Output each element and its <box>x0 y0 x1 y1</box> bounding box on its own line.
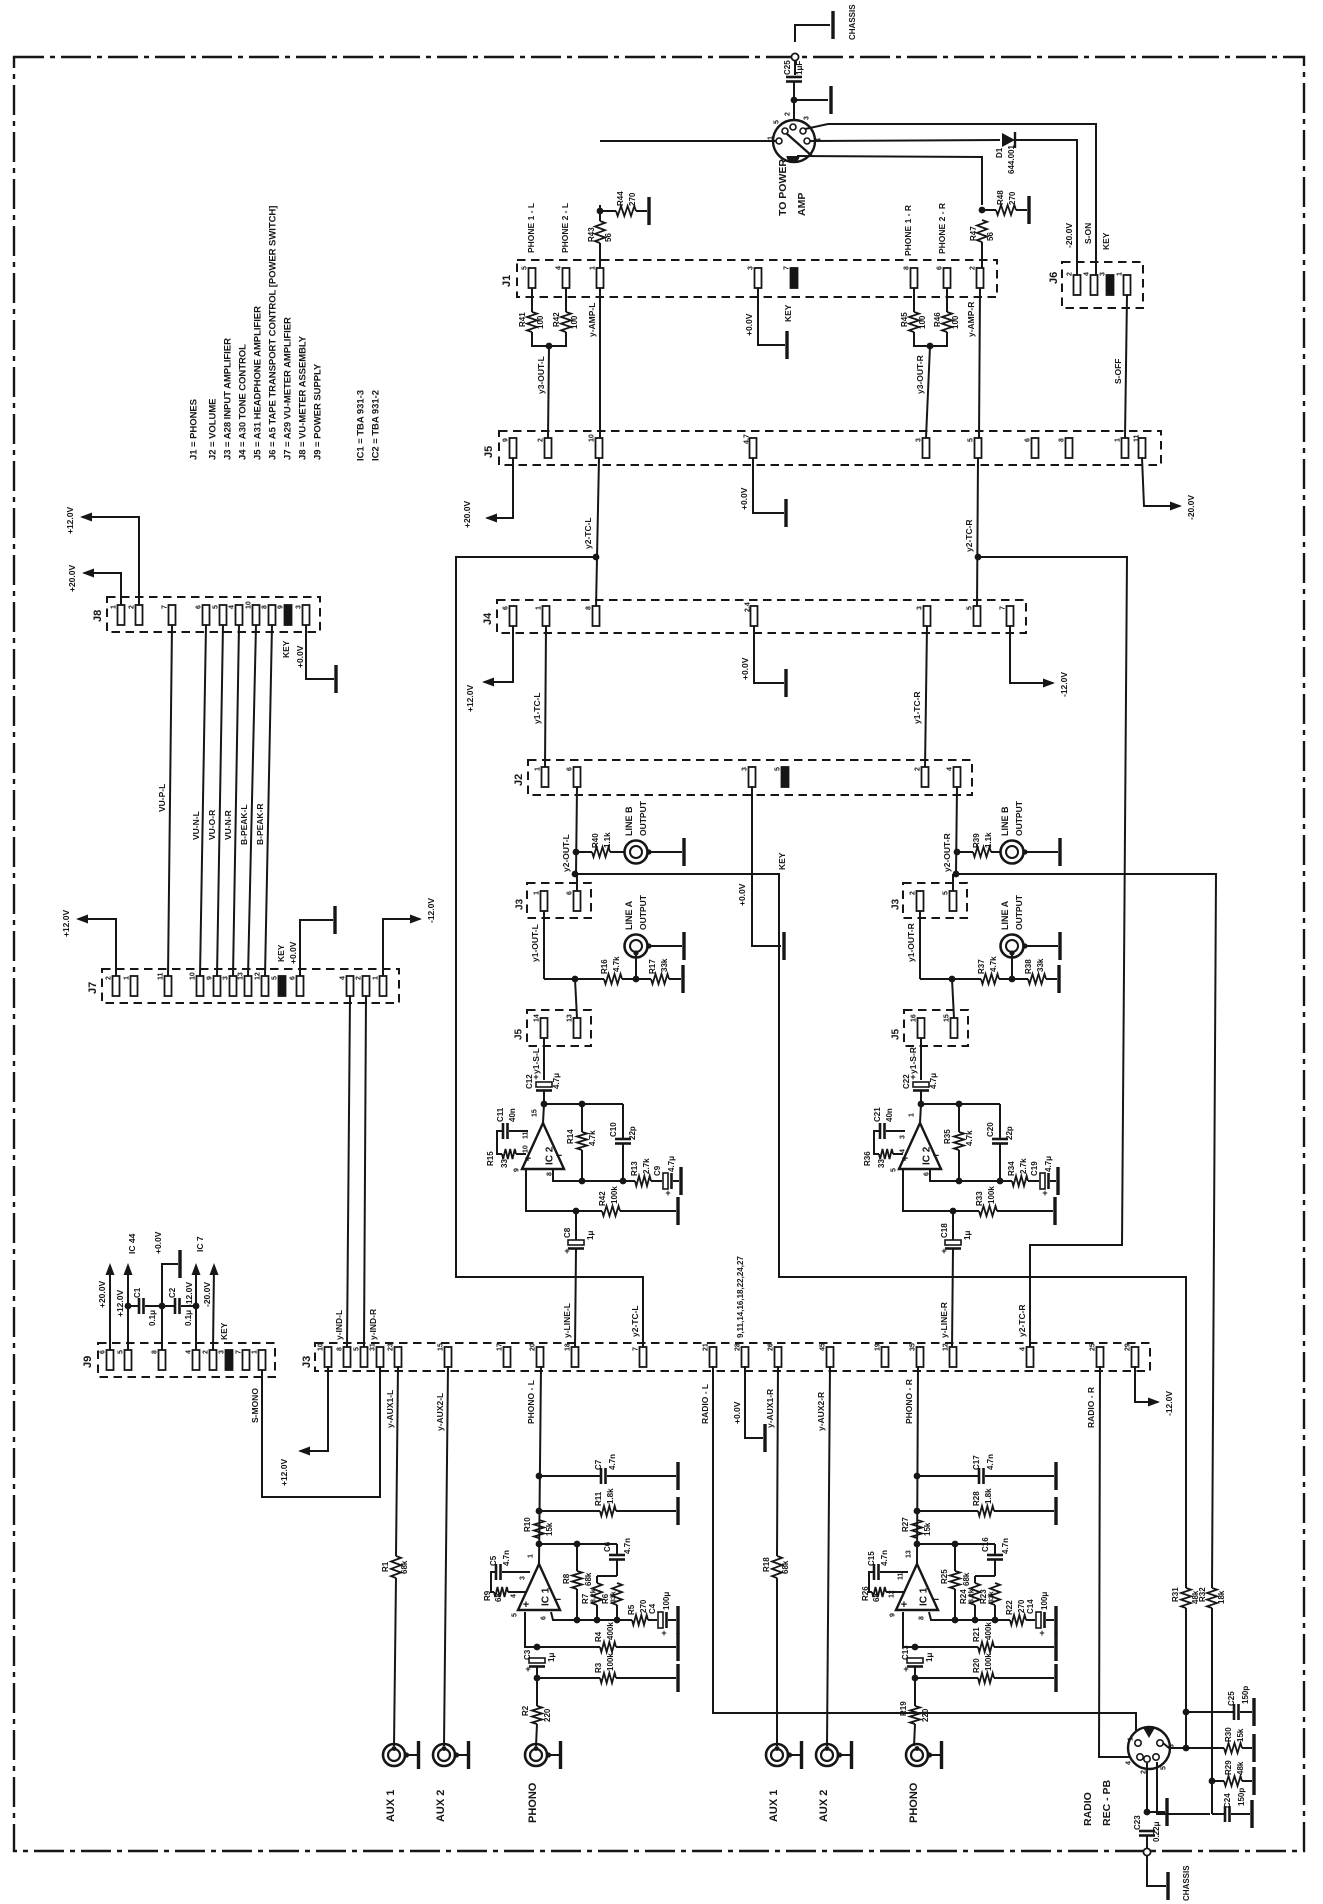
svg-text:21: 21 <box>703 1343 710 1351</box>
wire <box>607 1475 676 1477</box>
wire <box>999 1144 1001 1181</box>
svg-text:KEY: KEY <box>281 640 291 658</box>
ground <box>178 1250 181 1278</box>
svg-text:4: 4 <box>1126 1761 1133 1765</box>
svg-text:J2: J2 <box>513 774 525 786</box>
J4 pin 2,4 <box>751 606 758 626</box>
svg-text:644.001: 644.001 <box>1007 145 1016 174</box>
wire <box>616 1646 676 1648</box>
ground <box>676 1497 679 1525</box>
wire <box>543 1104 544 1123</box>
svg-text:15: 15 <box>532 1109 539 1117</box>
connector J5 (headphone loop R) <box>904 1010 968 1046</box>
svg-text:4.7k: 4.7k <box>989 956 998 972</box>
svg-text:IC2 = TBA 931-2: IC2 = TBA 931-2 <box>370 390 381 461</box>
wire RADIO-R to DIN pin4 <box>1099 1366 1133 1757</box>
svg-text:y1-TC-L: y1-TC-L <box>532 692 542 724</box>
svg-text:R47: R47 <box>969 226 978 241</box>
connector J7 <box>102 969 399 1003</box>
J7 pin 6 <box>297 976 304 996</box>
svg-text:R1: R1 <box>381 1561 390 1572</box>
junction <box>954 849 961 856</box>
svg-text:1: 1 <box>124 976 131 980</box>
wire <box>886 1591 904 1593</box>
J3 pin 21 <box>710 1347 717 1367</box>
wire <box>999 978 1012 980</box>
svg-text:R43: R43 <box>587 227 596 242</box>
wire <box>985 1475 1054 1477</box>
wire <box>794 99 828 101</box>
J5 pin 1 <box>1122 438 1129 458</box>
svg-text:VU-N-L: VU-N-L <box>191 811 201 840</box>
svg-text:C18: C18 <box>940 1223 949 1238</box>
svg-text:y2-TC-L: y2-TC-L <box>583 517 593 549</box>
svg-text:4: 4 <box>340 976 347 980</box>
ground <box>1057 965 1060 993</box>
svg-text:−: − <box>933 1150 939 1162</box>
resistor R2 220 <box>532 1706 542 1724</box>
wire <box>616 1560 618 1576</box>
wire J9 pin8 to ground <box>162 1264 178 1350</box>
chassis ground top <box>831 11 834 39</box>
ground <box>676 1197 679 1225</box>
resistor R9 68 <box>494 1587 508 1597</box>
resistor R42 100 <box>561 312 571 332</box>
wire DIN pin5 to C24 node <box>1157 1762 1210 1814</box>
svg-text:+: + <box>1039 1628 1044 1638</box>
J8 pin 4 <box>236 605 243 625</box>
svg-text:+: + <box>525 1664 530 1674</box>
wire RADIO-L to DIN pin1 <box>713 1366 1136 1742</box>
svg-text:KEY: KEY <box>1101 232 1111 250</box>
wire <box>1231 1813 1250 1815</box>
svg-text:13: 13 <box>906 1550 913 1558</box>
wire <box>565 288 567 312</box>
resistor R26 68 <box>872 1587 886 1597</box>
J9 pin 5 <box>125 1350 132 1370</box>
svg-text:6: 6 <box>290 976 297 980</box>
wire <box>537 1677 600 1679</box>
svg-text:11: 11 <box>158 972 165 980</box>
wire y1-TC-L J4 pin1 to J2 pin1 <box>545 626 546 768</box>
svg-text:4: 4 <box>900 1149 907 1153</box>
wire R45/R46 join <box>914 332 947 346</box>
wire <box>1012 978 1028 980</box>
resistor R25 68k <box>950 1571 960 1589</box>
wire R41/R42 join <box>532 332 566 346</box>
svg-text:C23: C23 <box>1133 1815 1142 1830</box>
svg-text:R41: R41 <box>518 312 527 327</box>
wire J3 pin28 to ground <box>745 1366 763 1438</box>
svg-text:J8 = VU-METER ASSEMBLY: J8 = VU-METER ASSEMBLY <box>297 335 308 460</box>
J8 pin 5 <box>220 605 227 625</box>
svg-text:R42: R42 <box>552 312 561 327</box>
svg-text:+0.0V: +0.0V <box>737 883 747 906</box>
J4 pin 5 <box>974 606 981 626</box>
J5 pin 4,7 <box>750 438 757 458</box>
J8 pin 8 <box>269 605 276 625</box>
ground <box>1054 1633 1057 1661</box>
J3 pin 35 <box>917 1347 924 1367</box>
wire y2-TC-R loop to J3 pin4 <box>978 557 1127 1348</box>
svg-text:+: + <box>903 1664 908 1674</box>
wire <box>145 1305 162 1307</box>
wire y2-OUT-L to R31 <box>575 874 1186 1588</box>
J9 pin 3 <box>226 1350 233 1370</box>
wire <box>1211 1608 1213 1814</box>
wire <box>610 851 624 853</box>
svg-text:C4: C4 <box>648 1603 657 1614</box>
svg-text:3: 3 <box>296 605 303 609</box>
junction <box>573 1208 580 1215</box>
wire J3 pin10 to +12.0V <box>300 1366 328 1451</box>
wire <box>1242 1780 1252 1782</box>
wire <box>575 979 577 1018</box>
svg-text:1: 1 <box>1117 272 1124 276</box>
J6 pin 2 <box>1074 275 1081 295</box>
svg-text:R35: R35 <box>943 1129 952 1144</box>
J3 pin 10 <box>325 1347 332 1367</box>
wire inverting input rail <box>929 1612 1010 1620</box>
svg-text:RADIO: RADIO <box>1082 1792 1094 1826</box>
svg-text:1: 1 <box>1115 438 1122 442</box>
svg-text:270: 270 <box>1017 1599 1026 1613</box>
junction <box>918 1101 925 1108</box>
svg-text:C5: C5 <box>489 1555 498 1566</box>
wire <box>794 61 796 75</box>
svg-text:400k: 400k <box>606 1622 615 1640</box>
resistor R6 33k <box>612 1583 622 1605</box>
svg-text:9: 9 <box>207 976 214 980</box>
wire B-PEAK-R J8 to J7 <box>265 625 272 976</box>
J5 pin 2 <box>545 438 552 458</box>
svg-text:R2: R2 <box>521 1705 530 1716</box>
wire <box>516 1153 526 1155</box>
wire <box>616 1677 676 1679</box>
svg-text:PHONE 1 - R: PHONE 1 - R <box>903 205 913 256</box>
svg-text:R4: R4 <box>594 1631 603 1642</box>
wire <box>954 1589 956 1620</box>
wire <box>920 978 981 980</box>
wire VU-O-R J8 to J7 <box>217 625 223 976</box>
arrow +12.0V <box>80 513 92 522</box>
svg-text:3: 3 <box>748 266 755 270</box>
svg-text:+12.0V: +12.0V <box>279 1458 289 1486</box>
svg-text:1: 1 <box>590 266 597 270</box>
svg-text:4.7k: 4.7k <box>965 1130 974 1146</box>
svg-text:1.8k: 1.8k <box>984 1488 993 1504</box>
wire <box>920 1104 921 1123</box>
resistor R1 68k <box>391 1556 401 1578</box>
wire <box>539 1510 600 1512</box>
connector J5 <box>499 431 1161 465</box>
resistor R31 48k <box>1181 1588 1191 1608</box>
capacitor C20 22p <box>992 1138 1008 1141</box>
svg-text:8: 8 <box>1059 438 1066 442</box>
svg-text:R39: R39 <box>972 833 981 848</box>
wire <box>958 1104 960 1132</box>
svg-text:100k: 100k <box>606 1653 615 1671</box>
wire <box>946 288 948 312</box>
svg-text:1: 1 <box>111 605 118 609</box>
J7 pin 2 <box>113 976 120 996</box>
svg-text:9,11,14,16,18,22,24,27: 9,11,14,16,18,22,24,27 <box>736 1256 745 1338</box>
wire chassis bottom <box>1147 1856 1166 1886</box>
wire non-inverting input <box>525 1612 537 1647</box>
svg-text:R17: R17 <box>648 959 657 974</box>
resistor R24 8.2k <box>970 1583 980 1605</box>
capacitor C10 22p <box>615 1138 631 1141</box>
svg-text:LINE A: LINE A <box>624 900 634 930</box>
ground <box>1252 1767 1255 1795</box>
svg-text:2: 2 <box>129 605 136 609</box>
svg-text:-20.0V: -20.0V <box>1064 223 1074 248</box>
ground <box>647 197 650 225</box>
J2 pin 2 <box>922 767 929 787</box>
resistor R5 270 <box>632 1615 648 1625</box>
svg-text:33k: 33k <box>989 1591 996 1603</box>
ground <box>1165 1798 1168 1826</box>
svg-text:C14: C14 <box>1026 1599 1035 1614</box>
wire D1 to J6 pin2 (-20.0V) <box>1016 140 1077 276</box>
J2 pin 6 <box>574 767 581 787</box>
J5 pin 3 <box>923 438 930 458</box>
svg-text:4,7: 4,7 <box>744 434 751 444</box>
svg-text:C15: C15 <box>867 1551 876 1566</box>
svg-text:R34: R34 <box>1007 1161 1016 1176</box>
wire to PHONO jack <box>536 1724 537 1746</box>
wire <box>509 1130 528 1132</box>
svg-text:8.2k: 8.2k <box>591 1589 598 1603</box>
wire inverting input rail <box>551 1612 632 1620</box>
wire <box>997 1210 1053 1212</box>
J3 pin 18 <box>572 1347 579 1367</box>
svg-text:9: 9 <box>278 605 285 609</box>
svg-text:R11: R11 <box>594 1491 603 1506</box>
wire J5 pin9 to +20.0V <box>487 458 513 518</box>
svg-text:1: 1 <box>373 976 380 980</box>
resistor R46 100 <box>942 312 952 332</box>
svg-text:31: 31 <box>370 1343 377 1351</box>
resistor R17 33k <box>651 974 669 984</box>
svg-text:4.7n: 4.7n <box>623 1538 632 1554</box>
svg-text:−: − <box>933 1594 939 1606</box>
jack AUX 2 right <box>816 1744 838 1766</box>
junction <box>159 1303 166 1310</box>
junction <box>975 554 982 561</box>
svg-text:AUX 2: AUX 2 <box>435 1790 447 1822</box>
wire J5 pin4,7 to ground <box>753 458 784 513</box>
svg-text:68k: 68k <box>584 1572 593 1586</box>
junction <box>594 1617 601 1624</box>
wire y-IND-R J7 pin2 to J3 pin5 <box>364 996 366 1347</box>
junction <box>914 1473 921 1480</box>
wire <box>1212 1813 1224 1815</box>
op-amp IC1 <box>518 1564 560 1610</box>
wire y2-OUT-R <box>956 787 957 874</box>
svg-text:PHONO - R: PHONO - R <box>904 1379 914 1424</box>
wire <box>597 1575 617 1577</box>
J1 pin 1 <box>597 268 604 288</box>
svg-text:R23: R23 <box>979 1589 988 1604</box>
J2 pin 4 <box>954 767 961 787</box>
svg-text:+0.0V: +0.0V <box>732 1401 742 1424</box>
svg-text:C9: C9 <box>653 1165 662 1176</box>
svg-text:11: 11 <box>1134 434 1141 442</box>
wire <box>576 874 578 891</box>
wire <box>917 1475 979 1477</box>
svg-text:26: 26 <box>768 1343 775 1351</box>
J3 pin 26 <box>775 1347 782 1367</box>
wire y-AMP-L J1 pin1 to J5 pin10 <box>599 288 601 438</box>
wire J8 pin2 to +12.0V <box>82 517 139 605</box>
junction <box>927 343 934 350</box>
jack AUX 1 left ground <box>417 1741 420 1769</box>
J8 pin 7 <box>169 605 176 625</box>
svg-text:2.7k: 2.7k <box>1019 1158 1028 1174</box>
wire <box>999 1104 1001 1139</box>
wire <box>537 1646 600 1648</box>
svg-text:AUX 1: AUX 1 <box>385 1790 397 1822</box>
junction <box>579 1101 586 1108</box>
svg-text:J8: J8 <box>92 610 104 622</box>
svg-text:1: 1 <box>528 1554 535 1558</box>
J5 pin 11 <box>1139 438 1146 458</box>
junction <box>1009 976 1016 983</box>
svg-text:R45: R45 <box>900 312 909 327</box>
svg-text:J5: J5 <box>891 1028 902 1040</box>
ground <box>682 838 685 866</box>
capacitor C5 4.7n <box>495 1564 498 1580</box>
svg-text:100: 100 <box>570 315 579 329</box>
capacitor C18 1μ <box>945 1240 961 1245</box>
svg-text:R44: R44 <box>616 191 625 206</box>
junction <box>536 1508 543 1515</box>
resistor R18 68k <box>772 1556 782 1578</box>
J3 pin 20 <box>537 1347 544 1367</box>
resistor R10 15k <box>534 1520 544 1538</box>
wire non-inverting input <box>903 1169 953 1211</box>
svg-text:68: 68 <box>494 1593 503 1602</box>
svg-text:15: 15 <box>438 1343 445 1351</box>
connector J2 <box>528 760 972 795</box>
resistor R33 100k <box>979 1206 997 1216</box>
resistor R4 400k <box>600 1642 616 1652</box>
svg-text:+: + <box>661 1628 666 1638</box>
svg-text:33: 33 <box>500 1159 509 1168</box>
op-amp IC1 <box>896 1564 938 1610</box>
resistor R27 15k <box>912 1520 922 1538</box>
jack LINE A OUTPUT right <box>1001 935 1024 958</box>
svg-text:J5 = A31 HEADPHONE AMPLIFIER: J5 = A31 HEADPHONE AMPLIFIER <box>252 306 263 460</box>
svg-text:15k: 15k <box>1236 1728 1245 1742</box>
junction <box>949 976 956 983</box>
J3 pin 25 <box>1097 1347 1104 1367</box>
wire y1-OUT-L <box>543 911 545 979</box>
wire S-OFF J6 pin1 to J5 pin1 <box>1125 295 1127 438</box>
svg-text:IC1 = TBA 931-3: IC1 = TBA 931-3 <box>355 390 366 461</box>
svg-text:1: 1 <box>1128 1737 1135 1741</box>
svg-text:R3: R3 <box>594 1662 603 1673</box>
J1 pin 8 <box>911 268 918 288</box>
svg-text:LINE B: LINE B <box>624 806 634 836</box>
junction <box>1183 1709 1190 1716</box>
J3 pin 17 <box>504 1347 511 1367</box>
ground <box>1056 1167 1059 1195</box>
wire J9 pin2 to -20.0V <box>213 1266 214 1350</box>
J4 pin 3 <box>924 606 931 626</box>
capacitor C19 4.7μ <box>1040 1173 1045 1189</box>
svg-text:C19: C19 <box>1030 1161 1039 1176</box>
wire <box>539 1475 601 1477</box>
node border crossing (open circle) <box>1143 1848 1150 1855</box>
wire to AUX1 jack <box>394 1578 396 1746</box>
wire J5 pin11 to -20.0V <box>1142 458 1180 506</box>
svg-text:PHONE 1 - L: PHONE 1 - L <box>526 203 536 253</box>
svg-text:40n: 40n <box>885 1108 894 1122</box>
junction <box>534 1675 541 1682</box>
svg-text:OUTPUT: OUTPUT <box>638 800 648 836</box>
svg-text:5: 5 <box>775 767 782 771</box>
capacitor C7 4.7n <box>600 1468 603 1484</box>
wire y3-OUT-R to J5 pin3 <box>926 346 930 438</box>
ground <box>1027 196 1030 224</box>
wire y2-TC-L loop to J3 pin7 <box>456 557 643 1348</box>
wire <box>668 1619 676 1621</box>
svg-text:TO POWER: TO POWER <box>777 159 789 216</box>
ground <box>682 932 685 960</box>
svg-text:35: 35 <box>910 1343 917 1351</box>
ground <box>1250 1800 1253 1828</box>
wire chassis top <box>795 25 830 42</box>
svg-text:+: + <box>910 1072 915 1082</box>
svg-text:15: 15 <box>944 1014 951 1022</box>
wire <box>920 1091 922 1104</box>
ground <box>829 86 832 114</box>
svg-text:y-AUX1-R: y-AUX1-R <box>765 1389 775 1428</box>
svg-text:J4 = A30 TONE CONTROL: J4 = A30 TONE CONTROL <box>237 344 248 460</box>
svg-text:8: 8 <box>904 266 911 270</box>
J7 pin 9 <box>214 976 221 996</box>
svg-text:6: 6 <box>567 767 574 771</box>
svg-text:R25: R25 <box>940 1569 949 1584</box>
svg-text:2: 2 <box>106 976 113 980</box>
wire <box>648 1619 657 1621</box>
resistor R23 33k <box>990 1583 1000 1605</box>
svg-text:4.7k: 4.7k <box>588 1130 597 1146</box>
svg-text:C3: C3 <box>523 1649 532 1660</box>
J6 pin 1 <box>1124 275 1131 295</box>
wire y-LINE-L to J3 <box>575 1249 576 1348</box>
svg-text:1: 1 <box>909 1113 916 1117</box>
svg-text:y-IND-L: y-IND-L <box>334 1310 344 1340</box>
wire J3 pin29 to -12.0V <box>1135 1366 1158 1402</box>
svg-text:2: 2 <box>1067 272 1074 276</box>
svg-text:3: 3 <box>916 438 923 442</box>
wire <box>616 1605 618 1620</box>
svg-text:+0.0V: +0.0V <box>288 941 298 964</box>
wire J9 pin5 to +12.0V <box>127 1266 129 1350</box>
wire feedback top rail <box>921 1103 1000 1105</box>
wire <box>622 1104 624 1139</box>
wire <box>1028 1180 1039 1182</box>
svg-text:KEY: KEY <box>276 944 286 962</box>
svg-text:5: 5 <box>354 1347 361 1351</box>
wire <box>1026 1619 1035 1621</box>
svg-text:4: 4 <box>556 266 563 270</box>
svg-text:6: 6 <box>503 606 510 610</box>
svg-text:KEY: KEY <box>219 1322 229 1340</box>
